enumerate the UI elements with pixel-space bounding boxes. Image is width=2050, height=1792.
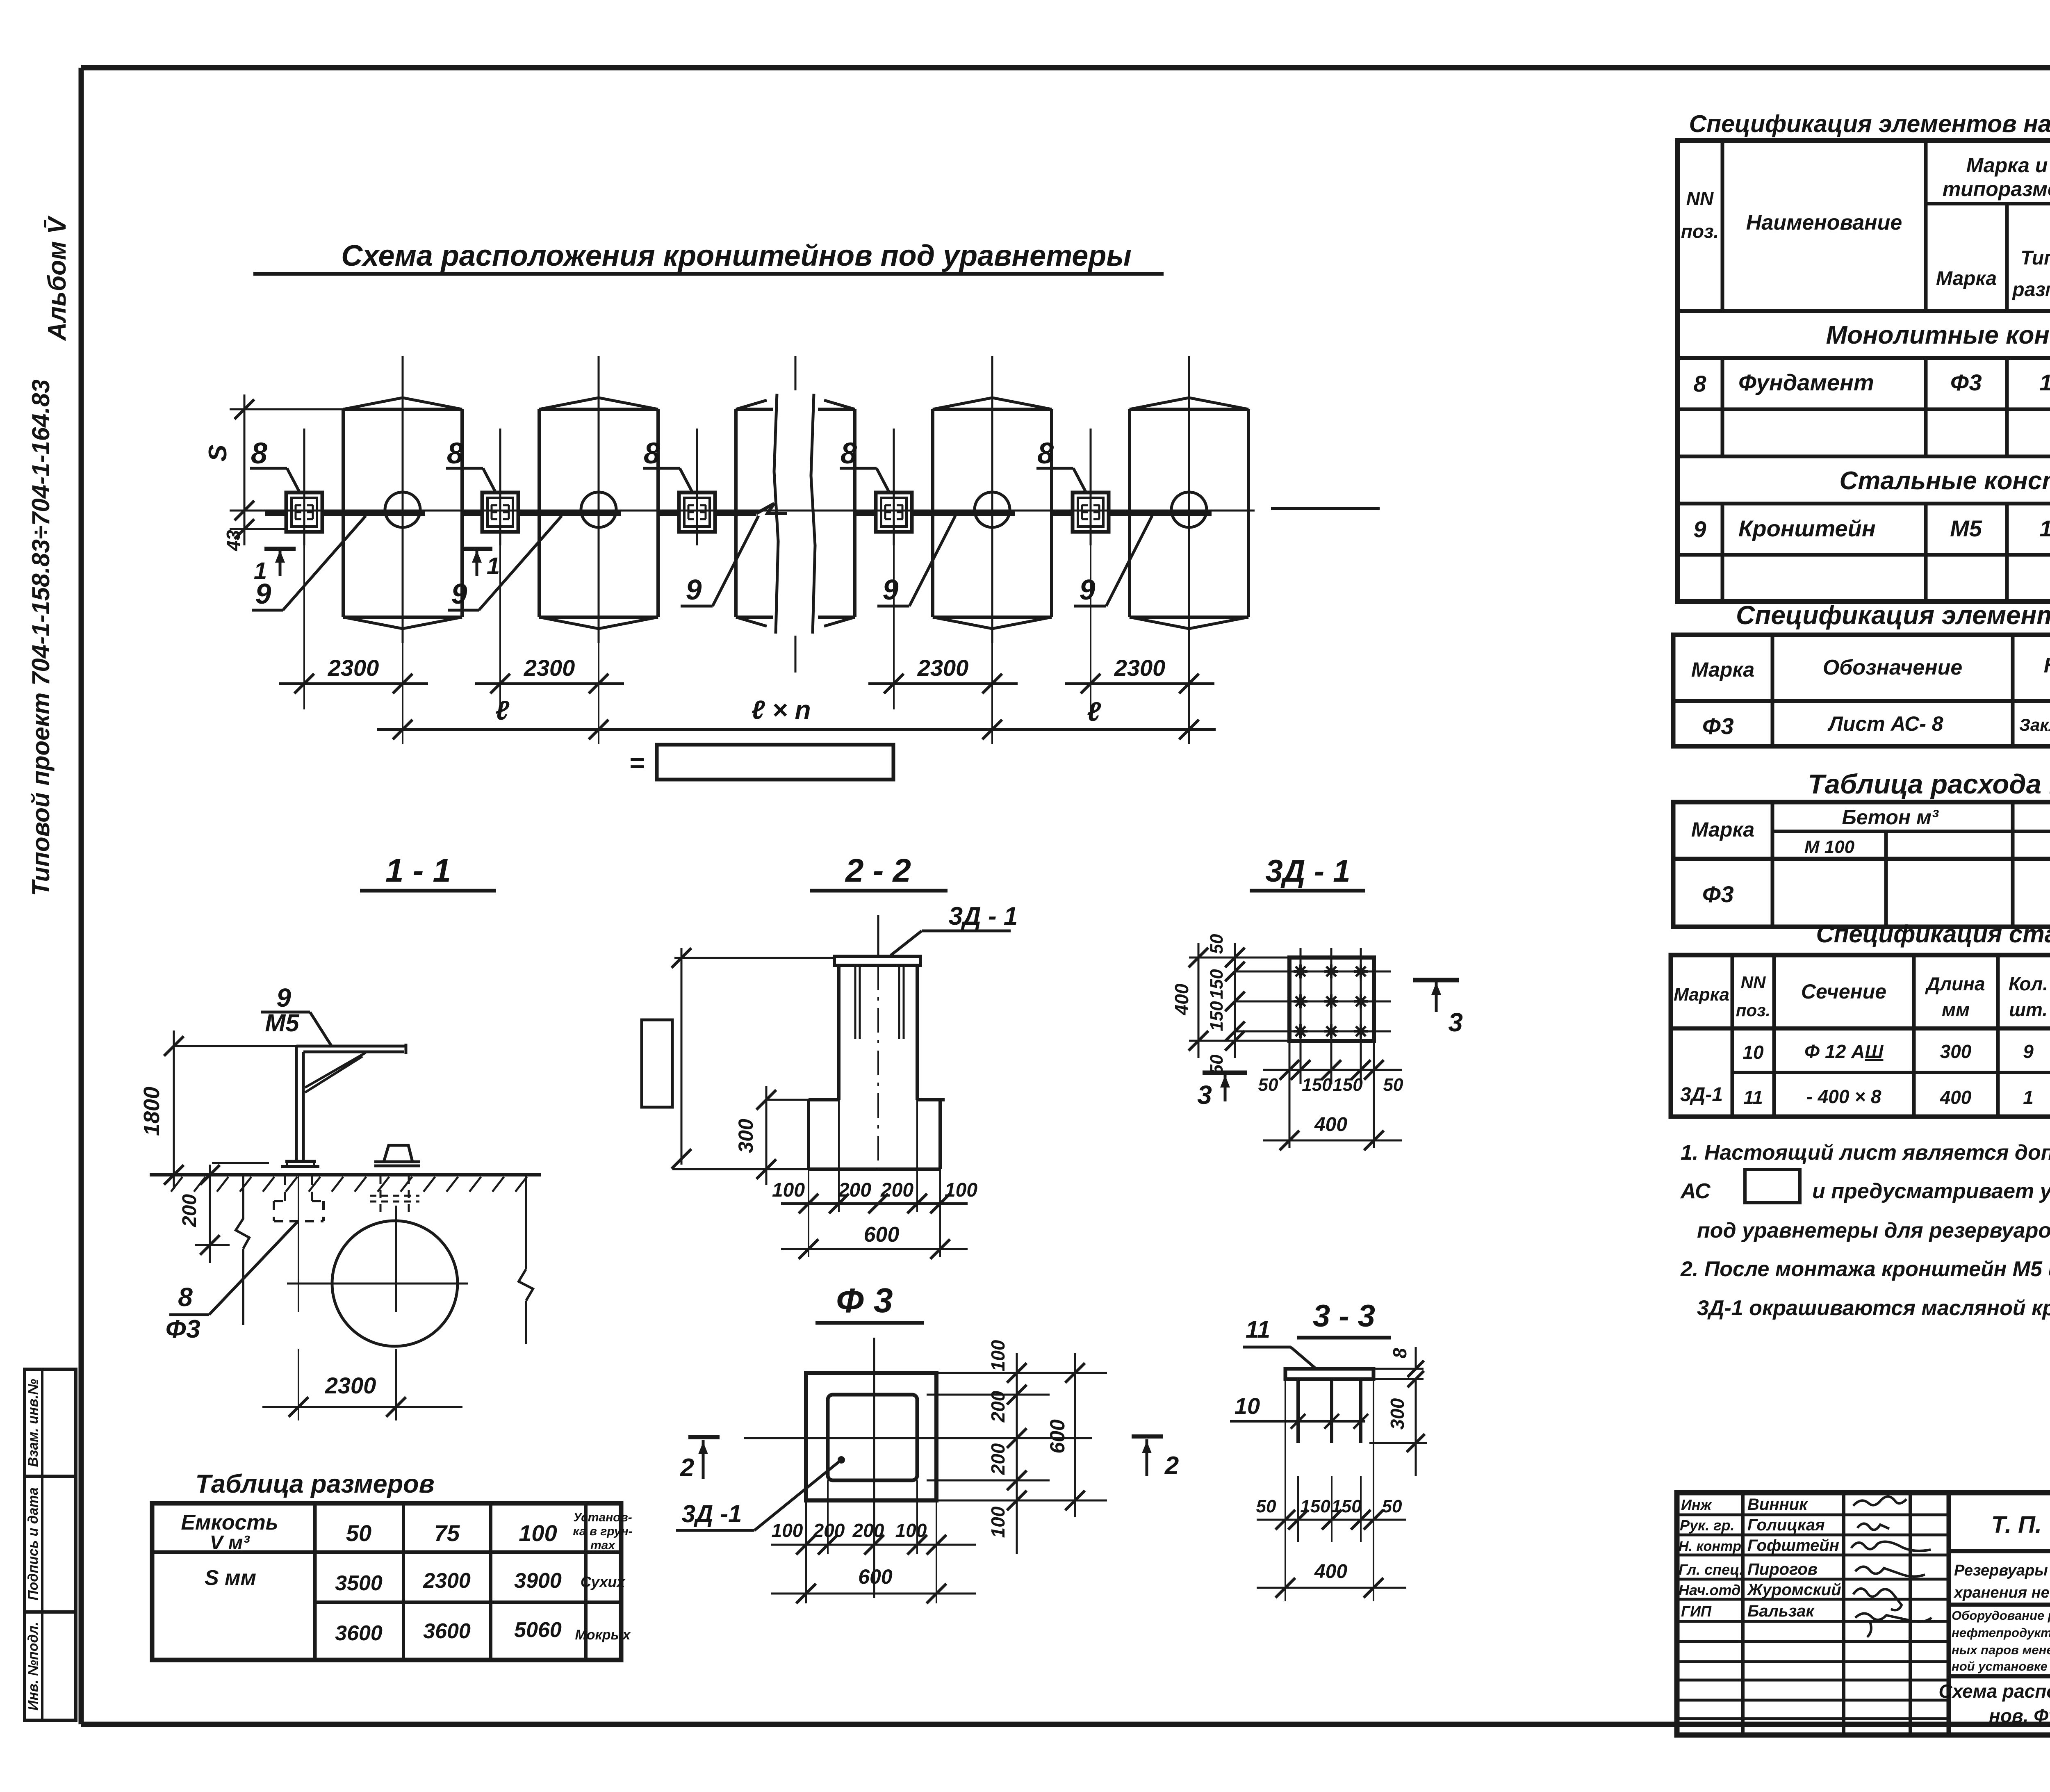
svg-text:200: 200	[987, 1443, 1009, 1475]
section mark 3 (right of 3D-1)	[1413, 980, 1463, 1037]
plate 3D-1 top view	[1235, 948, 1391, 1084]
left margin rotated caption: Альбом V	[43, 215, 71, 342]
3D-1 left dimensions 50 150 150 50 / 400	[1171, 934, 1289, 1074]
signature squiggles	[1851, 1496, 1932, 1637]
svg-text:1: 1	[2039, 515, 2050, 541]
svg-text:Рук. гр.: Рук. гр.	[1680, 1517, 1735, 1534]
svg-text:нефтепродуктов с давлением нас: нефтепродуктов с давлением насыщен-	[1952, 1626, 2050, 1640]
signature roles	[1679, 1496, 1745, 1620]
table 1 title	[1689, 110, 2050, 137]
F3 plan centerlines	[744, 1338, 1092, 1598]
svg-text:3600: 3600	[335, 1621, 383, 1645]
embedded plate 3-3	[1285, 1369, 1373, 1379]
svg-text:1: 1	[2023, 1087, 2034, 1108]
svg-text:Марка и: Марка и	[1966, 154, 2048, 177]
table 2 header texts	[1691, 652, 2050, 698]
table 2 title	[1736, 600, 2050, 630]
svg-text:Марка: Марка	[1691, 818, 1754, 841]
svg-text:200: 200	[179, 1194, 200, 1227]
svg-text:ℓ: ℓ	[1087, 696, 1101, 727]
svg-text:2 - 2: 2 - 2	[845, 852, 911, 889]
svg-text:ка в грун-: ка в грун-	[573, 1525, 632, 1538]
label 8 leader at tank 4	[840, 437, 889, 492]
svg-text:нов. Фундамент Ф3.: нов. Фундамент Ф3.	[1989, 1705, 2050, 1726]
tank 5 manhole circle	[1171, 492, 1207, 527]
svg-text:Оборудование резервуаров для х: Оборудование резервуаров для хранения	[1952, 1608, 2050, 1623]
svg-text:=: =	[629, 748, 644, 777]
svg-text:9: 9	[1693, 516, 1706, 542]
svg-text:2300: 2300	[423, 1569, 471, 1593]
svg-text:мм: мм	[1942, 999, 1970, 1020]
bracket post and arm (1-1)	[281, 1044, 406, 1167]
svg-text:100: 100	[987, 1506, 1009, 1538]
svg-text:Монолитные конструкции: Монолитные конструкции	[1826, 321, 2050, 349]
svg-text:200: 200	[813, 1520, 845, 1541]
svg-text:50: 50	[1207, 934, 1227, 954]
tank 4 manhole circle	[975, 492, 1010, 527]
signature names	[1747, 1496, 1841, 1620]
svg-text:М 100: М 100	[1804, 837, 1855, 857]
dimension 2300 at tank 1	[279, 545, 428, 709]
svg-text:200: 200	[852, 1520, 884, 1541]
svg-text:2: 2	[680, 1454, 694, 1482]
svg-text:300: 300	[734, 1119, 757, 1153]
bracket (pos.9) at tank 5	[1073, 429, 1109, 545]
svg-text:Обозначение: Обозначение	[1823, 656, 1963, 679]
tank 3 outline	[736, 356, 855, 673]
svg-text:2300: 2300	[917, 655, 969, 681]
svg-text:50: 50	[1256, 1496, 1276, 1516]
svg-text:50: 50	[1383, 1075, 1403, 1095]
svg-text:3500: 3500	[335, 1571, 383, 1595]
svg-text:S мм: S мм	[205, 1566, 256, 1590]
tank 5 outline	[1130, 356, 1248, 643]
bracket M5 label 9/M5	[261, 983, 332, 1047]
svg-text:10: 10	[1235, 1393, 1260, 1419]
svg-text:АС: АС	[1680, 1179, 1711, 1203]
section 3-3 title	[1297, 1299, 1391, 1338]
table 4 header texts	[1674, 969, 2050, 1031]
table 4 title	[1816, 920, 2050, 948]
svg-text:Φ3: Φ3	[1702, 713, 1733, 739]
svg-text:5060: 5060	[514, 1618, 562, 1642]
table 1 grid	[1678, 141, 2050, 602]
F3 plan outer square	[806, 1373, 936, 1500]
label 8/F3 with leader (1-1)	[165, 1222, 297, 1343]
plan: S and 43 dimension at left	[204, 394, 344, 552]
svg-text:S: S	[204, 445, 232, 461]
svg-text:150: 150	[1331, 1496, 1362, 1516]
foundation F3 elevation (2-2)	[809, 915, 945, 1177]
svg-text:Бетон м³: Бетон м³	[1842, 806, 1939, 829]
title block: project name cell	[1949, 1562, 2050, 1605]
svg-text:100: 100	[945, 1179, 977, 1201]
svg-text:Φ3: Φ3	[1950, 369, 1982, 395]
section mark 2 (right)	[1132, 1436, 1179, 1480]
svg-text:Таблица размеров: Таблица размеров	[195, 1470, 434, 1498]
svg-text:9: 9	[1080, 574, 1096, 606]
bracket (pos.9) at tank 3	[679, 429, 715, 545]
ground line with hatching	[150, 1175, 541, 1192]
tank 1 manhole circle	[385, 492, 420, 527]
svg-text:100: 100	[895, 1520, 927, 1541]
size table row wet	[335, 1618, 631, 1645]
svg-text:Установ-: Установ-	[573, 1511, 632, 1524]
svg-text:50: 50	[1382, 1496, 1402, 1516]
table 4 rows	[1680, 1041, 2050, 1108]
dimension 8 (plate thickness)	[1373, 1347, 1424, 1387]
svg-text:под уравнетеры для резервуа: под уравнетеры для резервуаров емкостью …	[1697, 1219, 2050, 1243]
left margin stamp strip	[25, 1369, 76, 1720]
svg-text:Наименование: Наименование	[2044, 654, 2050, 677]
svg-text:Марка: Марка	[1674, 985, 1729, 1005]
section mark 1 at tank 2	[461, 549, 500, 579]
svg-text:8: 8	[1037, 437, 1054, 470]
svg-text:Нач.отд: Нач.отд	[1679, 1582, 1740, 1598]
span labels l, lxn, l	[495, 695, 1101, 727]
svg-text:2300: 2300	[328, 655, 379, 681]
anchor symbols 3x3	[1294, 964, 1368, 1038]
title block outer	[1677, 1493, 2050, 1735]
svg-text:2300: 2300	[1114, 655, 1166, 681]
svg-text:9: 9	[451, 578, 467, 610]
svg-text:Пирогов: Пирогов	[1747, 1560, 1818, 1578]
svg-text:Бальзак: Бальзак	[1747, 1602, 1815, 1620]
svg-text:ℓ × n: ℓ × n	[751, 695, 811, 725]
svg-text:8: 8	[178, 1282, 193, 1312]
label 10 leader to rods	[1230, 1393, 1368, 1429]
svg-text:V м³: V м³	[210, 1532, 251, 1554]
svg-text:Н. контр.: Н. контр.	[1679, 1539, 1745, 1554]
label 8 leader at tank 3	[643, 437, 692, 492]
label 9 leader at tank 5	[1074, 516, 1152, 606]
svg-text:и предусматривает установку: и предусматривает установку кронштейнов	[1812, 1179, 2050, 1203]
svg-text:8: 8	[447, 437, 463, 470]
svg-text:3Д - 1: 3Д - 1	[1266, 854, 1351, 889]
label 9 leader at tank 4	[877, 516, 955, 606]
tank 2 outline	[539, 356, 658, 643]
svg-text:600: 600	[1046, 1419, 1069, 1454]
svg-text:Наименование: Наименование	[1746, 211, 1902, 235]
label 9 leader at tank 1	[252, 516, 366, 610]
svg-text:100: 100	[987, 1340, 1009, 1371]
svg-text:Резервуары стальные горизонтал: Резервуары стальные горизонтальные цилин…	[1954, 1562, 2050, 1579]
left reference line and empty dim box (2-2)	[642, 948, 833, 1169]
table 1 band: steel	[1840, 467, 2050, 495]
svg-text:3Д - 1: 3Д - 1	[949, 902, 1018, 930]
section 1-1 title	[360, 852, 496, 891]
svg-text:300: 300	[1387, 1398, 1408, 1429]
svg-text:Сухих: Сухих	[581, 1573, 626, 1590]
title block: project number cell	[1949, 1512, 2050, 1551]
svg-text:размер: размер	[2011, 279, 2050, 301]
label 8 leader at tank 2	[446, 437, 495, 492]
svg-text:ГИП: ГИП	[1681, 1603, 1712, 1620]
svg-text:Инв. №подл.: Инв. №подл.	[25, 1622, 41, 1711]
svg-text:3: 3	[1197, 1080, 1212, 1110]
svg-text:1: 1	[487, 553, 500, 579]
title block signature grid	[1677, 1493, 1949, 1735]
svg-text:43: 43	[223, 530, 244, 552]
svg-text:Схема расположения кронштей-: Схема расположения кронштей-	[1938, 1680, 2050, 1702]
bracket (pos.9) at tank 1	[286, 429, 322, 545]
svg-text:8: 8	[1693, 371, 1706, 397]
section mark 3 (left of 3D-1)	[1197, 1073, 1247, 1110]
svg-text:1: 1	[254, 558, 267, 584]
svg-text:Таблица расхода материалов: Таблица расхода материалов	[1808, 769, 2050, 800]
svg-text:400: 400	[1171, 983, 1192, 1015]
svg-text:200: 200	[838, 1179, 871, 1201]
svg-text:600: 600	[864, 1223, 900, 1247]
svg-text:NN: NN	[1741, 973, 1766, 992]
label 8 leader at tank 5	[1036, 437, 1086, 492]
F3 plan inner plate square	[828, 1395, 917, 1480]
table 1 band: monolithic	[1826, 321, 2050, 349]
size table row S	[205, 1566, 626, 1595]
detail 3D-1 title	[1250, 854, 1365, 891]
svg-text:Емкость: Емкость	[181, 1511, 278, 1534]
size table title	[195, 1470, 434, 1498]
heavy tie line bracket-to-tank 2	[461, 511, 621, 516]
F3 plan bottom dimensions 100 200 200 100 / 600	[771, 1480, 976, 1603]
svg-text:400: 400	[1314, 1561, 1347, 1582]
svg-text:Альбом V̄: Альбом V̄	[43, 215, 71, 342]
svg-text:М5: М5	[265, 1009, 300, 1037]
svg-text:150: 150	[1207, 969, 1227, 999]
svg-text:Длина: Длина	[1925, 973, 1985, 994]
svg-text:Винник: Винник	[1747, 1496, 1808, 1514]
svg-text:1 - 1: 1 - 1	[385, 852, 451, 889]
svg-text:100: 100	[519, 1520, 557, 1546]
bracket (pos.9) at tank 4	[876, 429, 912, 545]
svg-text:9: 9	[686, 574, 702, 606]
svg-text:11: 11	[1743, 1087, 1763, 1108]
svg-text:Типо-: Типо-	[2020, 247, 2050, 269]
svg-text:150: 150	[1300, 1496, 1330, 1516]
svg-text:2. После монтажа кронштейн: 2. После монтажа кронштейн М5 и закладна…	[1680, 1257, 2050, 1281]
dimension 1800	[139, 1031, 296, 1189]
svg-text:8: 8	[644, 437, 660, 470]
svg-text:Сечение: Сечение	[1801, 980, 1886, 1003]
bracket (pos.9) at tank 2	[482, 429, 518, 545]
svg-text:50: 50	[346, 1520, 371, 1546]
svg-text:200: 200	[987, 1391, 1009, 1423]
title block: sheet name cell	[1938, 1680, 2050, 1726]
label 8 leader at tank 1	[250, 437, 299, 492]
table 1 row 8	[1693, 362, 2050, 407]
heavy tie line bracket-to-tank 4	[855, 511, 1015, 516]
svg-text:2300: 2300	[325, 1372, 376, 1398]
svg-text:Типовой проект 704-1-158.8: Типовой проект 704-1-158.83÷704-1-164.83	[27, 379, 55, 896]
svg-text:10: 10	[1742, 1042, 1764, 1063]
table 3 header texts	[1691, 805, 2050, 857]
svg-text:хранения нефтепродуктов емкост: хранения нефтепродуктов емкостью 3,5,10,…	[1953, 1584, 2050, 1601]
svg-text:Фундамент: Фундамент	[1738, 369, 1874, 395]
bottom dimensions 100 200 200 100 / 600 (2-2)	[772, 1100, 977, 1259]
dimension 200 below ground	[179, 1165, 230, 1263]
svg-text:100: 100	[772, 1520, 803, 1541]
dimension 2300 (1-1)	[262, 1372, 462, 1417]
svg-text:- 400 × 8: - 400 × 8	[1806, 1086, 1881, 1107]
svg-text:150: 150	[1332, 1075, 1363, 1095]
svg-text:ных паров менее 200 мм рт. ст.: ных паров менее 200 мм рт. ст. при подзе…	[1952, 1643, 2050, 1657]
table 2 grid	[1673, 635, 2050, 746]
svg-text:поз.: поз.	[1681, 221, 1719, 242]
svg-text:Т. П. 704 - 1-158.83÷704-1-16: Т. П. 704 - 1-158.83÷704-1-164.83 АС	[1991, 1512, 2050, 1538]
svg-text:Голицкая: Голицкая	[1747, 1516, 1825, 1534]
svg-text:Кол.: Кол.	[2009, 973, 2048, 994]
left margin rotated caption: Типовой проект 704-1-158.83	[27, 379, 55, 896]
svg-text:тах: тах	[590, 1539, 615, 1552]
svg-text:9: 9	[276, 983, 291, 1012]
svg-text:Φ 3: Φ 3	[836, 1281, 893, 1320]
svg-text:Φ3: Φ3	[1702, 881, 1733, 907]
svg-text:3900: 3900	[514, 1569, 562, 1593]
svg-text:150: 150	[1207, 1001, 1227, 1031]
size table	[152, 1503, 621, 1660]
dimension 2300 at tank 5	[1065, 545, 1214, 709]
svg-text:поз.: поз.	[1736, 1001, 1770, 1020]
svg-text:Стальные конструкции: Стальные конструкции	[1840, 467, 2050, 495]
svg-text:1800: 1800	[139, 1087, 164, 1136]
3D-1 bottom dimensions 50 150 150 50 / 400	[1258, 1041, 1403, 1150]
svg-text:Спецификация элементов на: Спецификация элементов на один фундамент	[1736, 600, 2050, 630]
table 3 row F3	[1702, 881, 2050, 907]
tank 4 outline	[933, 356, 1052, 643]
svg-text:Φ3: Φ3	[165, 1315, 200, 1343]
anchor rods 3-3	[1298, 1379, 1361, 1443]
svg-text:типоразмер: типоразмер	[1943, 178, 2050, 201]
svg-text:8: 8	[251, 437, 267, 470]
svg-text:600: 600	[858, 1565, 893, 1588]
svg-text:11: 11	[1246, 1316, 1270, 1343]
svg-text:8: 8	[1389, 1348, 1410, 1359]
svg-text:Взам. инв.№: Взам. инв.№	[25, 1379, 41, 1467]
svg-text:ной установке в сухих и мокрых: ной установке в сухих и мокрых грунтах.	[1952, 1659, 2050, 1673]
svg-text:50: 50	[1258, 1075, 1278, 1095]
svg-text:Марка: Марка	[1936, 268, 1997, 290]
svg-text:Φ 12 АШ: Φ 12 АШ	[1804, 1041, 1884, 1062]
dimension 300 (2-2)	[734, 1086, 809, 1185]
svg-text:Подпись и дата: Подпись и дата	[25, 1487, 41, 1600]
svg-text:Мокрых: Мокрых	[575, 1627, 631, 1643]
label 9 leader at tank 3	[681, 516, 758, 606]
svg-text:2300: 2300	[524, 655, 575, 681]
buried foundation F3 dashed (1-1)	[274, 1175, 323, 1420]
section mark 2 (left)	[680, 1437, 720, 1482]
table 3 grid	[1673, 802, 2050, 927]
svg-text:NN: NN	[1686, 188, 1714, 209]
svg-text:М5: М5	[1950, 515, 1982, 541]
svg-text:Инж: Инж	[1681, 1496, 1713, 1513]
label 3D-1 leader (F3 plan)	[676, 1456, 845, 1530]
svg-text:3 - 3: 3 - 3	[1313, 1299, 1375, 1334]
svg-text:1: 1	[2039, 369, 2050, 395]
notes	[1680, 1141, 2050, 1320]
buried tank circle (1-1)	[287, 1206, 468, 1420]
svg-text:Лист АС- 8: Лист АС- 8	[1827, 712, 1943, 735]
soil cut verticals with break	[236, 1175, 533, 1344]
title block: object cell	[1949, 1605, 2050, 1735]
svg-text:3Д -1: 3Д -1	[682, 1500, 742, 1528]
svg-text:ℓ: ℓ	[495, 695, 510, 725]
heavy tie line bracket-to-tank 1	[265, 511, 425, 516]
svg-text:400: 400	[1940, 1087, 1972, 1108]
tank 2 manhole circle	[581, 492, 616, 527]
3-3 bottom dimensions 50 150 150 50 / 400	[1256, 1379, 1406, 1601]
size table header texts	[181, 1511, 632, 1554]
svg-text:3600: 3600	[423, 1619, 471, 1643]
dimension 300 (rod length)	[1369, 1379, 1427, 1476]
table 3 title	[1808, 769, 2050, 800]
svg-text:шт.: шт.	[2009, 999, 2048, 1020]
tank 1 outline	[343, 356, 462, 643]
svg-text:75: 75	[434, 1520, 460, 1546]
section mark 1 at tank 1	[254, 549, 296, 584]
svg-text:Спецификация стали на одну: Спецификация стали на одну марку	[1816, 920, 2050, 948]
table 1 row 9	[1693, 505, 2050, 550]
svg-text:9: 9	[2023, 1041, 2034, 1062]
svg-text:Спецификация элементов на м: Спецификация элементов на монтажную схем…	[1689, 110, 2050, 137]
svg-text:Журомский: Журомский	[1747, 1581, 1841, 1599]
dimension 2300 at tank 2	[475, 545, 624, 709]
svg-text:100: 100	[772, 1179, 805, 1201]
plan: tanks axis line	[230, 508, 1380, 511]
table 2 row F3	[1702, 712, 2050, 739]
main title: Схема расположения кронштейнов под уравнетеры	[253, 239, 1164, 274]
svg-text:Гофштейн: Гофштейн	[1747, 1537, 1839, 1555]
label 9 leader at tank 2	[448, 516, 562, 610]
svg-text:3: 3	[1448, 1008, 1463, 1037]
title F3 (elevation)	[815, 1281, 924, 1323]
svg-text:2: 2	[1164, 1452, 1179, 1480]
F3 plan right dimensions 100 200 200 100	[927, 1340, 1107, 1554]
table 1 header texts	[1681, 154, 2050, 303]
svg-text:Схема расположения кронштейн: Схема расположения кронштейнов под уравн…	[341, 239, 1132, 272]
table 4 grid	[1671, 955, 2050, 1117]
svg-text:300: 300	[1940, 1041, 1972, 1062]
svg-text:200: 200	[880, 1179, 913, 1201]
section 2-2 title	[810, 852, 948, 891]
label 11 leader	[1243, 1316, 1316, 1369]
svg-text:150: 150	[1302, 1075, 1332, 1095]
svg-text:8: 8	[840, 437, 857, 470]
svg-text:3Д-1: 3Д-1	[1680, 1084, 1723, 1106]
gauge pipe on tank (1-1)	[370, 1145, 420, 1217]
baseplate level reference line	[212, 1162, 269, 1164]
svg-text:400: 400	[1314, 1114, 1347, 1135]
svg-text:Кронштейн: Кронштейн	[1738, 515, 1876, 541]
label 3D-1 leader (2-2)	[891, 902, 1018, 955]
svg-text:9: 9	[883, 574, 899, 606]
heavy tie line bracket-to-tank 3	[658, 504, 787, 513]
svg-text:Гл. спец.: Гл. спец.	[1679, 1561, 1743, 1578]
svg-text:3Д-1 окрашиваются масляной: 3Д-1 окрашиваются масляной краской за дв…	[1697, 1296, 2050, 1320]
dimension 2300 at tank 4	[868, 545, 1018, 709]
lower span dimension line	[377, 709, 1216, 744]
svg-text:Закладная деталь 3Д-1: Закладная деталь 3Д-1	[2019, 715, 2050, 734]
svg-text:Марка: Марка	[1691, 658, 1754, 681]
equals empty box	[629, 745, 893, 780]
svg-text:1. Настоящий лист является: 1. Настоящий лист является дополнением к…	[1681, 1141, 2050, 1165]
heavy tie line bracket-to-tank 5	[1052, 511, 1212, 516]
